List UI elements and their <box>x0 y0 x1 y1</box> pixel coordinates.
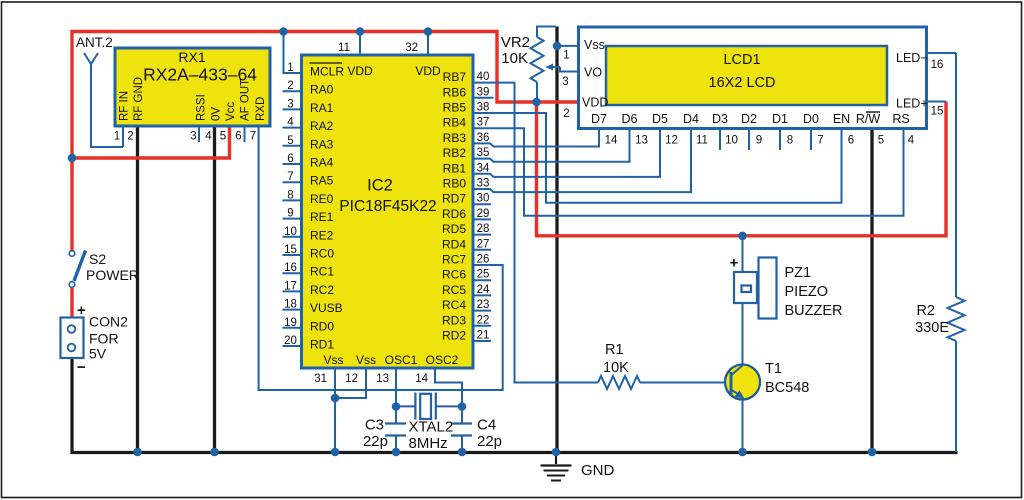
svg-text:0V: 0V <box>210 107 222 121</box>
svg-text:3: 3 <box>287 98 293 110</box>
svg-text:D6: D6 <box>622 112 638 126</box>
svg-text:6: 6 <box>848 135 854 147</box>
svg-text:RD7: RD7 <box>442 192 466 206</box>
svg-text:RSSI: RSSI <box>196 94 208 121</box>
svg-text:OSC1: OSC1 <box>385 353 418 367</box>
svg-text:1: 1 <box>114 131 120 143</box>
svg-text:D3: D3 <box>712 112 728 126</box>
svg-text:27: 27 <box>477 238 490 250</box>
svg-text:13: 13 <box>635 135 648 147</box>
svg-text:RC7: RC7 <box>442 253 466 267</box>
svg-text:23: 23 <box>477 299 490 311</box>
svg-text:1: 1 <box>563 50 569 62</box>
svg-text:POWER: POWER <box>86 267 139 283</box>
svg-text:VR2: VR2 <box>501 34 530 51</box>
svg-text:6: 6 <box>235 131 241 143</box>
svg-text:3: 3 <box>562 76 568 88</box>
svg-text:PIC18F45K22: PIC18F45K22 <box>339 198 436 215</box>
svg-text:RB1: RB1 <box>443 161 467 175</box>
svg-text:RC5: RC5 <box>442 283 466 297</box>
svg-text:LED+: LED+ <box>896 97 928 111</box>
svg-text:34: 34 <box>477 162 490 174</box>
svg-text:VDD: VDD <box>582 96 608 110</box>
svg-text:RA3: RA3 <box>310 137 334 151</box>
svg-text:RD6: RD6 <box>442 207 466 221</box>
svg-text:12: 12 <box>345 373 358 385</box>
svg-text:RB0: RB0 <box>443 177 467 191</box>
svg-text:29: 29 <box>477 208 490 220</box>
svg-text:VDD: VDD <box>347 64 373 78</box>
svg-text:VO: VO <box>584 66 602 80</box>
svg-text:32: 32 <box>405 42 418 54</box>
svg-text:14: 14 <box>605 135 618 147</box>
svg-text:2: 2 <box>563 108 569 120</box>
svg-text:7: 7 <box>817 135 823 147</box>
svg-text:RS: RS <box>892 112 909 126</box>
svg-text:Vss: Vss <box>323 353 343 367</box>
svg-text:22p: 22p <box>363 433 388 450</box>
svg-text:PZ1: PZ1 <box>785 265 812 281</box>
svg-text:ANT.2: ANT.2 <box>76 35 113 50</box>
svg-text:RB2: RB2 <box>443 146 467 160</box>
svg-text:RC1: RC1 <box>310 265 334 279</box>
svg-text:5V: 5V <box>89 346 107 362</box>
svg-text:5: 5 <box>287 135 293 147</box>
svg-text:31: 31 <box>314 373 327 385</box>
svg-text:+: + <box>730 255 739 272</box>
svg-text:RD0: RD0 <box>310 319 334 333</box>
svg-text:28: 28 <box>477 223 490 235</box>
svg-text:24: 24 <box>477 284 490 296</box>
svg-text:RA1: RA1 <box>310 101 334 115</box>
svg-text:22p: 22p <box>477 433 502 450</box>
svg-text:5: 5 <box>878 135 884 147</box>
svg-text:13: 13 <box>376 373 389 385</box>
svg-text:RB7: RB7 <box>443 70 467 84</box>
svg-text:4: 4 <box>287 117 294 129</box>
svg-text:RB4: RB4 <box>443 116 467 130</box>
svg-text:AF OUT: AF OUT <box>240 79 252 121</box>
svg-text:Vcc: Vcc <box>225 102 237 121</box>
svg-text:19: 19 <box>284 317 297 329</box>
svg-text:D4: D4 <box>683 112 699 126</box>
svg-text:14: 14 <box>415 373 428 385</box>
svg-text:D2: D2 <box>741 112 757 126</box>
svg-text:35: 35 <box>477 147 490 159</box>
svg-text:8: 8 <box>787 135 793 147</box>
svg-text:5: 5 <box>220 131 226 143</box>
svg-text:R2: R2 <box>916 303 935 319</box>
svg-text:Vss: Vss <box>584 38 605 52</box>
svg-text:RE0: RE0 <box>310 192 334 206</box>
svg-text:30: 30 <box>477 193 490 205</box>
svg-text:MCLR: MCLR <box>310 65 344 79</box>
svg-text:FOR: FOR <box>89 331 119 347</box>
svg-text:4: 4 <box>908 135 915 147</box>
svg-text:4: 4 <box>205 131 212 143</box>
svg-text:26: 26 <box>477 254 490 266</box>
svg-text:XTAL2: XTAL2 <box>409 419 454 436</box>
svg-text:RA2: RA2 <box>310 119 334 133</box>
svg-text:VUSB: VUSB <box>310 301 343 315</box>
svg-text:RD2: RD2 <box>442 329 466 343</box>
svg-text:LED−: LED− <box>896 51 928 65</box>
svg-text:D1: D1 <box>772 112 788 126</box>
svg-text:40: 40 <box>477 71 490 83</box>
svg-text:Vss: Vss <box>356 353 376 367</box>
svg-text:RXD: RXD <box>255 97 267 121</box>
svg-text:RD5: RD5 <box>442 222 466 236</box>
svg-text:BC548: BC548 <box>765 380 809 396</box>
svg-text:39: 39 <box>477 86 490 98</box>
svg-text:3: 3 <box>190 131 196 143</box>
svg-text:C4: C4 <box>477 417 496 434</box>
svg-text:RA4: RA4 <box>310 156 334 170</box>
svg-text:CON2: CON2 <box>89 314 128 330</box>
svg-text:10K: 10K <box>603 360 629 376</box>
svg-text:RB3: RB3 <box>443 131 467 145</box>
svg-text:RF IN: RF IN <box>119 91 131 121</box>
svg-text:D5: D5 <box>652 112 668 126</box>
svg-text:15: 15 <box>931 106 944 118</box>
svg-text:RB6: RB6 <box>443 85 467 99</box>
svg-text:2: 2 <box>127 131 133 143</box>
svg-text:17: 17 <box>284 280 297 292</box>
svg-text:36: 36 <box>477 132 490 144</box>
svg-text:EN: EN <box>833 112 850 126</box>
svg-text:C3: C3 <box>365 417 384 434</box>
svg-text:R/W: R/W <box>856 112 881 126</box>
svg-text:22: 22 <box>477 314 490 326</box>
svg-text:7: 7 <box>287 171 293 183</box>
svg-text:18: 18 <box>284 299 297 311</box>
svg-text:RF GND: RF GND <box>133 77 145 121</box>
svg-text:RC4: RC4 <box>442 298 466 312</box>
svg-text:RC6: RC6 <box>442 268 466 282</box>
svg-text:8MHz: 8MHz <box>409 435 448 452</box>
svg-text:RA5: RA5 <box>310 174 334 188</box>
svg-text:RX1: RX1 <box>178 49 205 65</box>
svg-text:16: 16 <box>931 59 944 71</box>
svg-text:RB5: RB5 <box>443 101 467 115</box>
svg-text:10K: 10K <box>501 50 528 67</box>
svg-text:8: 8 <box>287 189 293 201</box>
svg-text:21: 21 <box>477 330 490 342</box>
svg-text:25: 25 <box>477 269 490 281</box>
svg-text:D0: D0 <box>803 112 819 126</box>
svg-text:15: 15 <box>284 244 297 256</box>
svg-text:S2: S2 <box>89 251 106 267</box>
svg-text:RC2: RC2 <box>310 283 334 297</box>
svg-text:R1: R1 <box>605 342 624 358</box>
svg-text:BUZZER: BUZZER <box>785 303 843 319</box>
svg-text:10: 10 <box>284 226 297 238</box>
svg-text:6: 6 <box>287 153 293 165</box>
svg-text:GND: GND <box>581 462 615 479</box>
svg-text:330E: 330E <box>915 320 949 336</box>
svg-text:2: 2 <box>287 80 293 92</box>
svg-text:LCD1: LCD1 <box>723 52 760 68</box>
svg-text:RD4: RD4 <box>442 237 466 251</box>
svg-text:IC2: IC2 <box>367 177 393 195</box>
svg-text:33: 33 <box>477 178 490 190</box>
svg-text:RE1: RE1 <box>310 210 334 224</box>
svg-text:12: 12 <box>665 135 678 147</box>
svg-text:RA0: RA0 <box>310 83 334 97</box>
svg-text:11: 11 <box>696 135 708 147</box>
svg-text:38: 38 <box>477 102 490 114</box>
svg-text:1: 1 <box>287 62 293 74</box>
svg-text:VDD: VDD <box>415 64 441 78</box>
svg-text:7: 7 <box>250 131 256 143</box>
svg-text:−: − <box>77 359 86 376</box>
svg-text:16X2 LCD: 16X2 LCD <box>709 75 776 91</box>
svg-text:37: 37 <box>477 117 490 129</box>
svg-text:RE2: RE2 <box>310 228 334 242</box>
svg-text:OSC2: OSC2 <box>426 353 459 367</box>
svg-text:RC0: RC0 <box>310 247 334 261</box>
svg-text:RD3: RD3 <box>442 313 466 327</box>
svg-text:9: 9 <box>756 135 762 147</box>
svg-text:PIEZO: PIEZO <box>785 284 829 300</box>
svg-text:20: 20 <box>284 335 297 347</box>
svg-text:T1: T1 <box>765 361 782 377</box>
svg-text:11: 11 <box>338 42 350 54</box>
svg-text:10: 10 <box>725 135 738 147</box>
svg-text:9: 9 <box>287 208 293 220</box>
svg-text:16: 16 <box>284 262 297 274</box>
svg-text:D7: D7 <box>591 112 607 126</box>
svg-text:RD1: RD1 <box>310 338 334 352</box>
